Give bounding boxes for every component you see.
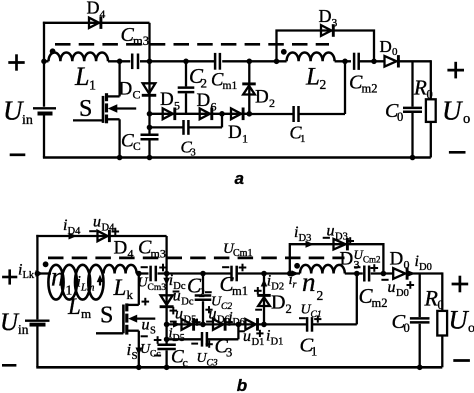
label - (uD0) [381, 279, 388, 281]
svg-text:U: U [449, 305, 470, 335]
label + (UCm2) [371, 264, 379, 272]
label Cm3 (fig b, above dash) [138, 236, 166, 260]
label + (output polarity, fig a) [447, 62, 464, 79]
coupling dot n2 [294, 263, 300, 269]
wire: Dc-Cc branch vertical (fig b) [165, 274, 167, 368]
svg-text:D1: D1 [271, 337, 284, 348]
label Lk (fig b) [113, 275, 134, 302]
wire: C3 branch (fig a) [150, 114, 223, 128]
node: C1 return junction (fig a) [342, 59, 348, 65]
capacitor C2 (fig b, shunt) [195, 296, 212, 300]
svg-text:u: u [388, 279, 396, 296]
node: C2 branch junction (fig a) [183, 59, 189, 65]
svg-text:6: 6 [211, 99, 217, 113]
svg-text:0: 0 [392, 46, 398, 58]
svg-text:D: D [87, 0, 100, 17]
label D0 (fig a) [380, 37, 399, 58]
label + (uD6) [226, 319, 233, 326]
inductor Lk (fig b) [104, 265, 137, 274]
svg-text:m2: m2 [362, 82, 378, 96]
wire: Cm1 to L2 node [222, 60, 286, 62]
label uD4 (fig b) [93, 214, 115, 234]
svg-text:S: S [79, 96, 92, 122]
label iD0 (fig b) [415, 253, 432, 273]
node: D5 row junction (fig b) [164, 322, 170, 328]
node: D2 branch junction (fig b) [261, 271, 267, 277]
label + (Cm1) [239, 264, 247, 272]
node: D2 top junction (fig a) [247, 59, 253, 65]
label - (UC1) [299, 317, 306, 319]
wire: D3 bypass branch (fig a) [277, 31, 375, 62]
svg-text:D: D [160, 89, 174, 110]
label C1 (fig b) [300, 335, 318, 359]
label Cm1 (fig b) [220, 272, 248, 298]
label + (uS) [142, 298, 150, 306]
label + (output polarity, fig b) [452, 276, 469, 293]
node: D6/D1/C3 junction (fig b) [236, 322, 242, 328]
svg-text:0: 0 [438, 298, 444, 312]
label + (UC3) [206, 341, 213, 348]
svg-text:2: 2 [269, 96, 275, 110]
coupling polarity dot of L2 [281, 49, 287, 55]
battery Uin (figure a) long plate [33, 107, 56, 109]
wire: figure-a left rail (bottom segment) [43, 115, 45, 157]
label + (uD5) [193, 319, 200, 326]
label iD5 (fig b) [169, 326, 185, 345]
svg-text:Cm2: Cm2 [363, 255, 381, 265]
label D2 (fig a) [255, 86, 275, 110]
capacitor C3 (fig b, series) [202, 332, 207, 347]
current arrow iD0 [408, 270, 416, 277]
svg-text:o: o [463, 111, 470, 127]
transistor S MOSFET (fig a) [73, 61, 136, 157]
resistor R0 (fig a) [426, 99, 436, 122]
label D0 (fig b) [390, 249, 410, 272]
wire: C0 branch vertical (fig a) [411, 61, 413, 157]
node: D3 return junction (fig b) [381, 271, 387, 277]
label Uo (fig a) [442, 95, 470, 127]
svg-text:m1: m1 [223, 80, 238, 92]
node: drain junction (fig b) [136, 271, 142, 277]
label + (UC1) [314, 316, 321, 323]
svg-text:k: k [127, 287, 134, 302]
label D4 (fig b) [114, 237, 134, 260]
current arrow iD5 [173, 321, 181, 327]
svg-text:5: 5 [174, 98, 180, 112]
label - (input polarity, fig a) [10, 153, 26, 156]
label iS (fig b) [127, 340, 138, 362]
label D2 (fig b) [271, 292, 292, 317]
svg-text:2: 2 [199, 285, 206, 300]
svg-text:D: D [380, 37, 392, 56]
diode D4 (fig a) [89, 17, 101, 29]
svg-text:D: D [340, 248, 354, 269]
svg-text:a: a [235, 169, 244, 188]
label iD1 (fig b) [266, 328, 283, 348]
label - (UC2) [205, 291, 212, 293]
node: C2 branch junction (fig b) [200, 271, 206, 277]
svg-text:o: o [468, 321, 474, 336]
current arrow iLm (up) [97, 275, 104, 286]
label C2 (fig b) [187, 274, 205, 301]
svg-text:2: 2 [286, 302, 292, 316]
label - (uDc) [173, 291, 180, 293]
svg-text:m1: m1 [232, 284, 248, 298]
svg-text:D: D [197, 90, 211, 111]
svg-text:U: U [3, 96, 24, 126]
wire: n2 to Cm2 (fig b) [345, 272, 363, 274]
current arrow iD3 [306, 241, 315, 248]
svg-text:C: C [133, 87, 141, 101]
label uD0 (fig b) [388, 279, 409, 299]
label n1 (fig b) [51, 262, 72, 298]
label C0 (fig b) [392, 311, 410, 335]
node: D6/D1/C3 junction (fig a) [219, 111, 225, 117]
label C0 (fig a) [385, 100, 403, 124]
svg-text:in: in [22, 113, 33, 128]
node: D1/D2/C1 junction (fig a) [247, 111, 253, 117]
svg-text:C2: C2 [221, 302, 232, 312]
node: Cc-rail junction (fig b) [164, 365, 170, 371]
label L2 (fig a) [305, 64, 326, 93]
wire: D5-D6-D1 row (fig a) [150, 113, 250, 115]
svg-text:r: r [293, 280, 297, 291]
wire: Cm3 to Cm1 (fig b) [158, 272, 231, 274]
label C1 (fig a) [290, 123, 306, 146]
winding n2 (fig b) [300, 265, 345, 274]
svg-text:Cm1: Cm1 [233, 248, 252, 259]
node: C1 return junction (fig b) [354, 271, 360, 277]
label UC1 (fig b) [301, 303, 322, 321]
label - (output polarity, fig a) [449, 151, 466, 154]
coupling polarity dot of L1 [50, 48, 56, 54]
diode D2 (fig b, pointing up) [257, 295, 271, 306]
label - (UCm3) [141, 266, 148, 268]
diode D3 (fig a) [321, 24, 333, 37]
svg-text:D0: D0 [419, 262, 432, 273]
label D5 (fig a) [160, 89, 180, 113]
svg-text:U: U [442, 95, 463, 125]
label - (uD3) [323, 237, 330, 239]
diode D6 (fig a) [200, 108, 212, 121]
svg-text:D1: D1 [252, 337, 265, 348]
label + (UCm3) [159, 264, 167, 272]
label D6 (fig a) [197, 90, 217, 114]
svg-text:in: in [18, 322, 29, 337]
label b (subfigure marker) [237, 376, 247, 393]
current arrow iS (down) [136, 348, 143, 356]
svg-text:D: D [114, 237, 128, 258]
label - (UC3) [191, 343, 198, 345]
wire: L2 to Cm2 [335, 60, 351, 62]
capacitor C0 (fig b, shunt) [410, 318, 430, 322]
svg-text:L: L [67, 294, 81, 319]
label C3 (fig a) [181, 138, 196, 159]
node: source-rail junction (fig a) [117, 155, 123, 161]
svg-text:D0: D0 [396, 288, 409, 299]
svg-text:C: C [133, 141, 141, 153]
node: MOSFET drain junction (fig a) [117, 59, 123, 65]
diode D1 (fig b) [245, 318, 257, 331]
battery Uin (fig b) short thick plate [30, 323, 46, 327]
label + (UC2) [205, 306, 212, 313]
svg-text:U: U [0, 309, 20, 336]
battery Uin (figure a) short thick plate [38, 112, 53, 116]
label uDc (fig b) [173, 288, 194, 308]
dashed coupling line (fig a) [55, 43, 329, 46]
label iLm (fig b) [77, 274, 95, 294]
node: C3 branch junction (fig a) [147, 125, 153, 131]
node: D5/C2 junction (fig b) [200, 322, 206, 328]
wire: Cm3 to C2 node [140, 60, 215, 62]
node: source-rail junction (fig b) [136, 365, 142, 371]
diode DC (fig a, pointing down) [142, 83, 157, 95]
label uD6 (fig b) [209, 306, 230, 326]
label + (uD2) [254, 287, 262, 295]
label + (uDc) [170, 307, 178, 315]
label iD2 (fig b) [267, 273, 284, 293]
svg-text:Cm3: Cm3 [148, 283, 167, 293]
label ir (fig b) [289, 272, 297, 291]
svg-text:0: 0 [427, 87, 433, 101]
svg-text:3: 3 [354, 257, 360, 271]
svg-text:1: 1 [89, 79, 96, 94]
wire: D5-D6-D1 row (fig b) [167, 323, 264, 325]
wire: Cm1 to n2 (fig b) [238, 272, 300, 274]
label + (uD1) [256, 330, 263, 337]
label Cm3 (fig a) [121, 24, 149, 48]
svg-text:D: D [228, 122, 242, 143]
svg-text:D: D [390, 249, 404, 270]
capacitor Cm3 (fig b, series) [151, 266, 156, 282]
label uD3 (fig b) [327, 223, 348, 243]
label UCm1 (fig b, above dash) [223, 241, 252, 259]
label Uo (fig b) [449, 305, 474, 337]
label D4 (fig a) [87, 0, 106, 21]
current arrow iD2 (up) [261, 279, 268, 288]
label UC3 (fig b) [197, 351, 218, 369]
dashed coupling line (fig b) [48, 257, 345, 260]
wire: C2 branch vertical (fig a) [185, 61, 187, 114]
label CC (fig a) [121, 131, 141, 154]
svg-text:n: n [51, 262, 65, 292]
resistor R0 (fig b) [437, 311, 447, 336]
battery Uin (fig b) long plate [25, 320, 50, 322]
wire: main branch to n1 (fig b) [37, 272, 51, 274]
node: CC-rail junction (fig a) [147, 155, 153, 161]
svg-text:Cc: Cc [150, 349, 161, 359]
diode D2 (fig a, pointing up) [242, 84, 256, 95]
capacitor Cm2 (fig a, series) [354, 53, 359, 70]
wire: D4 drop to main node (fig b) [165, 236, 167, 274]
node: D5 row junction on DC branch (fig a) [147, 111, 153, 117]
svg-text:L: L [305, 64, 320, 91]
coupling dot n1 [43, 261, 49, 267]
diode D6 (fig b) [213, 318, 225, 331]
svg-text:D3: D3 [299, 233, 312, 244]
wire: R0 branch vertical (fig a) [430, 60, 432, 157]
svg-text:u: u [173, 288, 181, 305]
node: D4/DC junction (fig a) [147, 59, 153, 65]
diode D5 (fig a) [163, 108, 175, 121]
svg-text:S: S [100, 303, 113, 329]
inductor L2 (fig a) [287, 52, 335, 61]
wire: D4 drop to main node [148, 23, 150, 62]
label Uin (fig b) [0, 309, 29, 337]
diode D3 (fig b) [334, 238, 348, 250]
label UCc (fig b) [140, 342, 161, 360]
label uS (fig b) [142, 317, 157, 337]
label UCm2 (fig b) [354, 247, 381, 265]
svg-text:D: D [271, 292, 285, 314]
diode D5 (fig b) [182, 318, 194, 331]
wire: main branch from input node to L1 [44, 60, 49, 62]
label R0 (fig b) [424, 286, 444, 313]
node: input/L1 junction (fig a) [41, 59, 47, 65]
capacitor CC (fig a, shunt) [141, 135, 159, 139]
svg-text:4: 4 [100, 9, 106, 21]
label + (uD3) [346, 237, 354, 245]
node: C0-rail junction (fig b) [417, 365, 423, 371]
wire: left input rail fig b (bottom segment) [36, 326, 38, 367]
svg-text:n: n [302, 267, 316, 297]
label iD3 (fig b) [294, 224, 311, 244]
svg-text:D: D [119, 78, 133, 99]
wire: L1 to Cm3 [108, 60, 130, 62]
label iD4 (fig b) [63, 217, 81, 237]
label iLk (fig b) [18, 262, 35, 282]
label - (input polarity, fig b) [2, 364, 16, 367]
wire: C1 branch (fig a) [249, 61, 345, 114]
label Cm2 (fig a) [349, 72, 377, 96]
node: D1/D2/C1 junction (fig b) [261, 322, 267, 328]
wire: D0 to output corner (fig b) [406, 272, 443, 274]
svg-text:D: D [319, 6, 332, 26]
svg-text:S: S [150, 326, 156, 337]
svg-text:Dc: Dc [181, 297, 194, 308]
svg-text:m2: m2 [372, 296, 388, 310]
label - (uD5) [170, 321, 177, 323]
svg-text:m3: m3 [133, 34, 149, 48]
node: D4/Dc junction (fig b) [164, 271, 170, 277]
svg-text:1: 1 [311, 345, 317, 359]
svg-text:D: D [255, 86, 269, 107]
label L1 (fig a) [74, 62, 96, 94]
current arrow iD4 [69, 233, 78, 240]
label uD5 (fig b) [175, 306, 196, 326]
current arrow iLk [36, 270, 44, 277]
label D3 (fig b) [340, 248, 360, 271]
capacitor C0 (fig a, shunt) [403, 108, 422, 112]
svg-text:u: u [93, 214, 101, 231]
wire: DC-CC branch vertical (fig a) [148, 61, 150, 157]
label D3 (fig a) [319, 6, 338, 30]
label + (input polarity, fig a) [8, 54, 24, 70]
label - (uD6) [206, 321, 213, 323]
label Cm1 (fig a) [211, 71, 237, 93]
wire: bottom rail (fig b) [36, 366, 442, 369]
svg-text:S: S [132, 350, 138, 362]
svg-text:1: 1 [242, 131, 248, 145]
label S (fig b) [100, 303, 113, 329]
label Cm2 (fig b) [359, 284, 388, 310]
svg-text:0: 0 [404, 321, 410, 335]
label - (output polarity, fig b) [453, 359, 470, 362]
svg-text:0: 0 [397, 110, 403, 124]
svg-text:2: 2 [201, 76, 208, 91]
wire: D2 branch vertical (fig a) [248, 61, 250, 114]
label uD1 (fig b) [243, 328, 264, 348]
wire: left input rail fig b (top segment) [36, 235, 38, 320]
svg-text:b: b [237, 376, 247, 393]
wire: D3 bypass branch (fig b) [290, 244, 384, 273]
svg-text:3: 3 [332, 17, 338, 29]
label + (uD4) [112, 228, 120, 236]
wire: bottom rail (fig a) [43, 156, 431, 159]
label n2 (fig b) [302, 267, 323, 303]
label S (fig a) [79, 96, 92, 122]
capacitor Cc (fig b, shunt) [157, 345, 175, 349]
label iD6 (fig b) [229, 310, 245, 329]
diode D0 (fig b) [393, 267, 407, 279]
node: C3 branch junction (fig b) [164, 337, 170, 343]
node: rail/winding junction (fig b) [35, 271, 41, 277]
node: n2/D3 junction (fig b) [287, 271, 293, 277]
svg-text:2: 2 [317, 288, 324, 303]
label DC (fig a) [119, 78, 141, 101]
current arrow iDc (down) [163, 278, 170, 286]
label + (input polarity, fig b) [2, 269, 17, 284]
wire: Lk to Cm3 (fig b) [137, 272, 149, 274]
label + (uD0) [407, 281, 415, 289]
label - (uD4) [89, 230, 96, 232]
wire: Cm2 to D0 [359, 60, 384, 62]
wire: figure-a left input rail (top segment) [43, 22, 45, 107]
svg-text:Lk: Lk [23, 270, 35, 281]
label - (UCc) [154, 355, 161, 357]
label Lm (fig b) [67, 294, 91, 321]
label - (uS) [141, 335, 148, 337]
svg-text:L: L [113, 275, 127, 300]
capacitor C1 (fig b, series) [307, 317, 312, 332]
capacitor Cm1 (fig a, series) [215, 53, 220, 70]
svg-text:1: 1 [300, 133, 306, 145]
label Uin (fig a) [3, 96, 33, 129]
capacitor Cm2 (fig b, series) [364, 266, 369, 282]
svg-text:L: L [74, 62, 89, 91]
wire: C3 branch (fig b) [167, 324, 239, 339]
winding n1 / magnetizing inductance Lm (fig b) [48, 265, 103, 300]
label + (UCc) [154, 336, 162, 344]
wire: C2 branch vertical (fig b) [202, 274, 204, 325]
label a (subfigure marker) [235, 169, 244, 188]
wire: Cm2 to D0 (fig b) [371, 272, 394, 274]
svg-text:R: R [424, 286, 439, 311]
diode D4 (fig b) [98, 230, 110, 242]
node: C0-rail junction (fig a) [410, 155, 416, 161]
svg-text:u: u [142, 317, 150, 334]
svg-text:3: 3 [226, 346, 232, 360]
capacitor Cm1 (fig b, series) [232, 266, 237, 282]
svg-text:2: 2 [320, 77, 327, 92]
node: D3 return junction (fig a) [371, 59, 377, 65]
wire: C1 branch (fig b) [264, 274, 357, 325]
label C2 (fig a) [189, 64, 207, 91]
label - (UCm2) [354, 266, 360, 268]
label Cc (fig b) [171, 347, 188, 370]
diode D1 (fig a) [231, 108, 243, 121]
label - (Cm1) [222, 266, 229, 268]
